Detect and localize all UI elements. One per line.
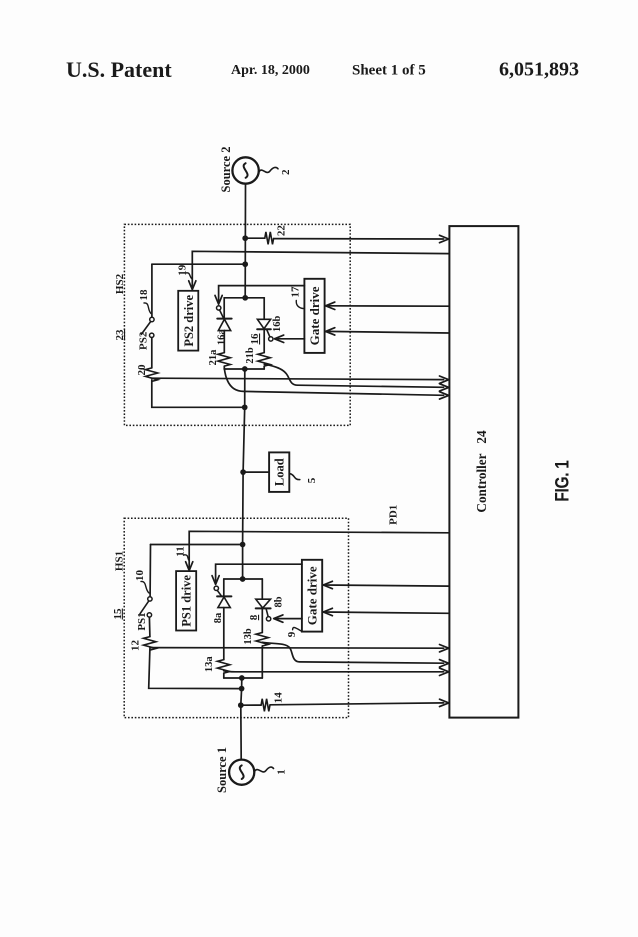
svg-text:PS2 drive: PS2 drive <box>182 294 196 346</box>
svg-text:12: 12 <box>130 640 142 652</box>
svg-text:U.S. Patent: U.S. Patent <box>66 57 172 82</box>
svg-text:23: 23 <box>114 329 126 341</box>
svg-text:HS1: HS1 <box>113 551 125 571</box>
svg-text:Source 2: Source 2 <box>219 147 233 193</box>
svg-text:PS1 drive: PS1 drive <box>180 575 194 627</box>
svg-text:PS1: PS1 <box>136 612 148 630</box>
svg-text:11: 11 <box>175 546 187 556</box>
svg-text:19: 19 <box>177 264 189 276</box>
svg-text:20: 20 <box>136 364 148 376</box>
svg-text:FIG. 1: FIG. 1 <box>551 460 573 502</box>
svg-text:13a: 13a <box>204 656 215 673</box>
svg-text:21a: 21a <box>208 349 219 366</box>
svg-text:Controller 24: Controller 24 <box>474 430 489 513</box>
svg-text:16a: 16a <box>216 329 227 346</box>
svg-text:2: 2 <box>280 169 292 175</box>
svg-text:14: 14 <box>273 692 285 704</box>
svg-text:17: 17 <box>290 286 302 298</box>
svg-text:6,051,893: 6,051,893 <box>499 59 579 81</box>
svg-text:10: 10 <box>134 570 146 582</box>
svg-text:8a: 8a <box>213 612 224 623</box>
svg-text:Sheet 1 of 5: Sheet 1 of 5 <box>352 63 426 79</box>
svg-text:Load: Load <box>273 458 287 486</box>
svg-text:PD1: PD1 <box>388 505 400 525</box>
svg-text:Gate drive: Gate drive <box>305 566 320 625</box>
svg-text:Source 1: Source 1 <box>215 747 229 793</box>
svg-text:HS2: HS2 <box>114 273 126 294</box>
svg-text:Gate drive: Gate drive <box>307 286 322 345</box>
svg-text:13b: 13b <box>243 628 254 645</box>
svg-text:18: 18 <box>138 289 150 301</box>
svg-text:21b: 21b <box>245 347 256 364</box>
svg-text:1: 1 <box>276 769 288 775</box>
svg-text:5: 5 <box>306 477 318 483</box>
svg-text:8: 8 <box>248 614 260 620</box>
svg-text:16b: 16b <box>272 315 283 332</box>
svg-text:PS2: PS2 <box>138 331 150 350</box>
svg-text:22: 22 <box>275 225 287 237</box>
svg-text:15: 15 <box>112 608 124 620</box>
svg-text:16: 16 <box>249 333 261 345</box>
svg-text:9: 9 <box>286 631 298 637</box>
svg-text:8b: 8b <box>274 596 285 607</box>
svg-text:Apr. 18, 2000: Apr. 18, 2000 <box>231 63 310 78</box>
